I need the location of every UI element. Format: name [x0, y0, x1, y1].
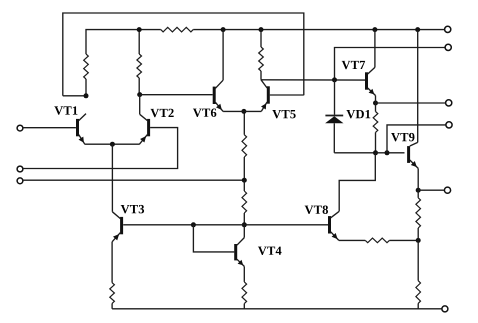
label VT8 [305, 205, 328, 214]
wire VT6-VT5 emitter node to R5 [243, 111, 245, 134]
node +rail / R4 [259, 27, 264, 32]
resistor R11 (VT4 emitter) [242, 266, 247, 308]
wire +rail y=29.6 left segment [86, 30, 161, 54]
wire VT4 base tap [193, 225, 234, 252]
node VT7 emitter [373, 101, 378, 106]
label VD1 [346, 110, 370, 118]
resistor R2 (VT2 collector load) [137, 30, 142, 95]
wire input3 node to R6 [243, 180, 245, 191]
wire VT8 collector path [339, 153, 375, 212]
label VT4 [258, 247, 282, 255]
node VT1 collector [84, 93, 89, 98]
wire VT6 collector [222, 30, 224, 81]
wire VT9 emitter stub [417, 168, 419, 190]
transistor VT1 [76, 114, 86, 145]
wire bottom rail [112, 308, 442, 310]
resistor R5 (divider upper) [242, 135, 247, 157]
wire VT2 collector to bar [139, 95, 141, 115]
wire VT6 emitter to node [223, 110, 244, 112]
wire output tap y=124.9 [387, 125, 446, 153]
node +rail / VT9 collector [415, 27, 420, 32]
wire input 2 to VT2 base [23, 128, 178, 169]
wire VT7 base node to VD1 cathode [334, 80, 336, 115]
label VT7 [342, 61, 365, 69]
node emitter bus [110, 142, 115, 147]
transistor VT7 [365, 67, 376, 95]
wire VT6 base [140, 94, 213, 96]
resistor R6 (divider lower) [242, 191, 247, 213]
terminal out y=124.9 [446, 122, 452, 128]
terminal out y=47.5 [445, 44, 451, 50]
node VT2 collector / VT6 base [137, 92, 142, 97]
label VT6 [193, 109, 216, 117]
wire VT7/VT5 base net y=79.8 [261, 79, 365, 81]
resistor R3 (in +rail) [161, 27, 193, 32]
terminal input 1 [17, 125, 23, 131]
terminal out y=190.2 [444, 187, 450, 193]
label VT2 [150, 109, 173, 117]
wire VT5 emitter to node [244, 110, 261, 112]
label VT5 [272, 110, 295, 118]
transistor VT3 [112, 212, 123, 242]
resistor R8 (VT9 emitter) [416, 190, 421, 240]
terminal +supply [445, 26, 451, 32]
node +rail / VT6 collector [221, 27, 226, 32]
transistor VT6 [213, 80, 223, 111]
wire VT7 emitter output [376, 102, 446, 104]
terminal input 3 [17, 178, 23, 184]
node +rail / R2 [137, 27, 142, 32]
wire VT3-VT8 base bus [123, 224, 328, 226]
wire R6 to base bus [243, 213, 245, 225]
node VT9 base / output tap [385, 150, 390, 155]
wire VT9 base [376, 152, 405, 154]
wire VT7 collector [374, 30, 376, 68]
wire top loop (VT5 base to VT1 input side) [63, 13, 304, 96]
transistor VT8 [328, 211, 339, 240]
resistor R10 (VT3 emitter) [110, 242, 115, 309]
wire VT9 collector [417, 30, 419, 143]
node VT6/VT5 emitters [241, 109, 246, 114]
wire input 3 to divider [23, 179, 245, 181]
terminal input 2 [17, 166, 23, 172]
node VD1 anode-wire / VT7 base [332, 77, 337, 82]
wire output net y=47.5 [335, 48, 446, 80]
node base bus / VT4 collector [242, 222, 247, 227]
label VT1 [54, 106, 77, 114]
node +rail / VT7 collector [372, 27, 377, 32]
wire VT1-VT2 emitter bus [85, 143, 140, 145]
wire +rail y=29.6 right segment [193, 29, 444, 31]
diode VD1 [325, 116, 343, 153]
transistor VT4 [234, 238, 244, 267]
node R7 / VD1 / VT8 collector [373, 150, 378, 155]
transistor VT9 [407, 142, 418, 168]
wire input 1 to VT1 base [23, 127, 76, 129]
node base bus / VT4 base tap [191, 222, 196, 227]
wire VT5 base lead [270, 94, 304, 96]
wire R5 to input3 node [243, 157, 245, 180]
wire emitter bus to VT3 collector [111, 144, 113, 212]
node VT9 emitter [416, 188, 421, 193]
resistor R7 (VT7 emitter) [373, 103, 378, 153]
label VT9 [391, 133, 414, 141]
wire VT1 collector feed from loop [63, 95, 86, 97]
terminal out y=103 [446, 100, 452, 106]
label VT3 [121, 205, 144, 213]
transistor VT5 [261, 80, 270, 112]
transistor VT2 [139, 114, 150, 144]
wire VT7 emitter stub [375, 96, 377, 104]
wire VT4 collector [243, 225, 245, 238]
node VT8 emitter / R8 / R12 [416, 238, 421, 243]
terminal -supply [442, 306, 448, 312]
resistor R4 (VT5 collector load) [259, 30, 264, 80]
resistor R12 (to -rail) [416, 240, 421, 308]
wire VD1 anode to VT9 base net [334, 152, 375, 154]
resistor R9 (VT8 emitter) [339, 238, 418, 243]
wire VT9 emitter output [418, 189, 444, 191]
resistor R1 (VT1 collector load) [84, 54, 89, 96]
node divider / input 3 [242, 178, 247, 183]
